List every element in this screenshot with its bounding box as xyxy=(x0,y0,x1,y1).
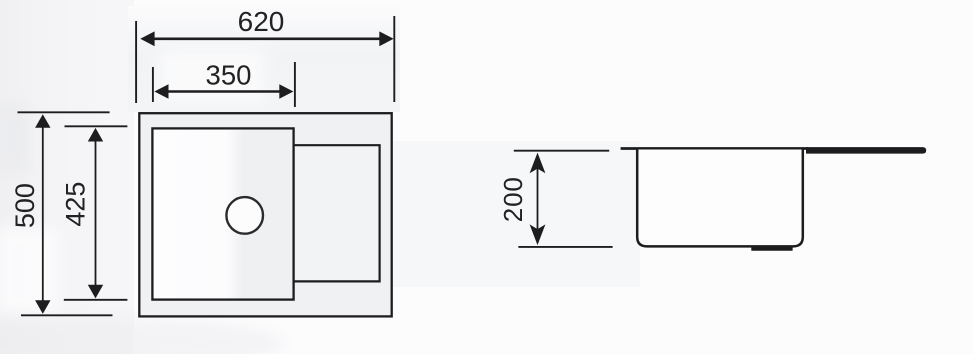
background bottom-left swirl xyxy=(0,317,285,354)
dim 620 extension line right xyxy=(393,16,395,102)
dim 500 tick top xyxy=(18,111,110,113)
dim 500 line xyxy=(42,120,44,308)
dim 500 tick bottom xyxy=(21,314,113,316)
background left wash xyxy=(0,0,134,354)
sink outer outline (top view) xyxy=(139,113,391,316)
dim 425 arrowhead down xyxy=(88,285,103,299)
dim 620 extension line left xyxy=(135,21,137,103)
dim 425 line xyxy=(95,132,97,294)
dim 350 arrowhead right xyxy=(279,84,293,98)
dim 200 line xyxy=(537,158,539,240)
dim 200 tick top xyxy=(514,150,609,152)
bowl profile (side view) xyxy=(637,150,803,247)
svg-text:620: 620 xyxy=(238,6,285,37)
dim 425 arrowhead up xyxy=(88,128,103,142)
drainboard recess (top view) xyxy=(294,145,380,281)
svg-text:500: 500 xyxy=(10,183,40,228)
background top band xyxy=(128,6,400,112)
dim 500 arrowhead down xyxy=(35,300,50,314)
dim 620 label xyxy=(238,6,285,37)
bowl (top view) xyxy=(152,128,293,299)
dim 350 arrowhead left xyxy=(154,84,168,98)
dim 620 arrowhead left xyxy=(140,31,154,46)
dim 200 label xyxy=(498,176,528,222)
background left white patch xyxy=(0,228,58,314)
dim 350 extension line right xyxy=(294,62,296,107)
dim 425 tick bottom xyxy=(64,299,128,301)
rim line (side view) xyxy=(621,147,808,150)
drain hole xyxy=(226,197,263,234)
svg-text:425: 425 xyxy=(60,182,90,227)
background left dark patch xyxy=(0,104,28,174)
dim 200 tick bottom xyxy=(518,246,612,248)
dim 620 arrowhead right xyxy=(379,31,393,46)
dim 500 label xyxy=(10,183,40,228)
background white patch near 350 xyxy=(160,50,264,102)
svg-text:200: 200 xyxy=(498,176,528,222)
dim 500 arrowhead up xyxy=(35,114,50,128)
dim 350 line xyxy=(162,90,286,92)
dim 350 label xyxy=(206,60,252,91)
drainboard profile (side view) xyxy=(806,147,926,154)
dim 425 tick top xyxy=(65,125,128,127)
dim 350 extension line left xyxy=(152,67,154,102)
dim 620 line xyxy=(149,37,384,40)
dim 425 label xyxy=(60,182,90,227)
svg-text:350: 350 xyxy=(206,60,252,91)
dim 200 arrowhead down xyxy=(530,224,546,245)
background mid band xyxy=(393,141,640,287)
drain bump (side view) xyxy=(751,246,792,251)
dim 200 arrowhead up xyxy=(530,153,546,174)
